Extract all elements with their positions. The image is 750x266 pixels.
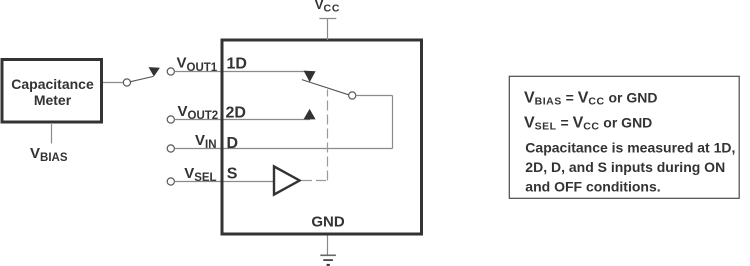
device under test box U1 bbox=[222, 40, 422, 234]
wire VSEL to pin S buffer bbox=[174, 181, 273, 183]
buffer U2 bbox=[274, 166, 300, 194]
node VSEL terminal bbox=[167, 178, 174, 185]
svg-text:2D, D, and S inputs during ON: 2D, D, and S inputs during ON bbox=[525, 159, 725, 175]
node VIN terminal bbox=[167, 145, 174, 152]
wire ground stem bbox=[327, 236, 329, 256]
wire VCC stem bbox=[327, 19, 329, 41]
capacitance meter box bbox=[2, 60, 102, 123]
svg-text:VBIAS: VBIAS bbox=[30, 145, 68, 164]
svg-text:Capacitance: Capacitance bbox=[11, 76, 94, 92]
svg-text:S: S bbox=[227, 166, 238, 183]
notes box bbox=[509, 76, 739, 198]
switch S1 arm bbox=[130, 76, 153, 81]
node VOUT2 terminal bbox=[167, 116, 174, 123]
wire VBIAS stem bbox=[51, 124, 53, 144]
svg-text:2D: 2D bbox=[226, 105, 246, 122]
note capacitance measurement text bbox=[525, 140, 735, 195]
internal switch arm bbox=[302, 80, 349, 95]
wire VIN to pin D and switch return bbox=[174, 148, 392, 150]
svg-text:VCC: VCC bbox=[315, 0, 340, 14]
wire VOUT1 to pin 1D bbox=[174, 71, 304, 73]
svg-text:1D: 1D bbox=[227, 56, 247, 73]
switch arrow at 1D bbox=[304, 71, 316, 83]
svg-text:D: D bbox=[227, 135, 239, 152]
svg-text:Capacitance is measured at 1D,: Capacitance is measured at 1D, bbox=[525, 140, 735, 156]
wire VOUT2 to pin 2D bbox=[174, 119, 310, 121]
switch S1 arrowhead bbox=[149, 67, 160, 76]
dashed control line horizontal bbox=[302, 180, 328, 182]
wire meter output bbox=[103, 82, 123, 84]
dashed control line vertical bbox=[327, 90, 329, 181]
svg-text:and OFF conditions.: and OFF conditions. bbox=[525, 178, 660, 194]
svg-text:Meter: Meter bbox=[34, 92, 72, 108]
internal switch throw terminal bbox=[349, 92, 356, 99]
node VOUT1 terminal bbox=[167, 68, 174, 75]
wire switch throw to right bbox=[356, 95, 393, 97]
switch arrow at 2D bbox=[304, 109, 316, 120]
ground symbol bbox=[320, 255, 336, 265]
svg-text:GND: GND bbox=[311, 214, 345, 231]
switch S1 pole terminal bbox=[123, 79, 130, 86]
wire right vertical to D line bbox=[392, 96, 394, 149]
VCC supply bar bbox=[319, 18, 336, 20]
